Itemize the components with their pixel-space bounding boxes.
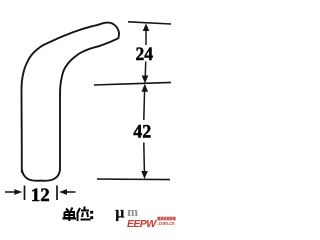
part outline (bent pin profile) bbox=[22, 23, 120, 181]
位 char bbox=[78, 208, 81, 221]
svg-text:μ: μ bbox=[115, 205, 124, 222]
unit label "单位" drawn strokes bbox=[63, 207, 91, 222]
dimension tick line middle bbox=[94, 82, 171, 85]
svg-text:m: m bbox=[127, 204, 138, 219]
svg-text:42: 42 bbox=[133, 122, 151, 143]
width dimension left extension bar bbox=[24, 186, 26, 201]
width dimension left leader line bbox=[5, 191, 16, 193]
dimension line 42 upper segment bbox=[143, 89, 146, 120]
width dimension right leader line bbox=[65, 191, 76, 193]
svg-text:24: 24 bbox=[136, 44, 154, 65]
dimension arrow down at bottom tick bbox=[141, 171, 148, 179]
dimension line 42 lower segment bbox=[143, 143, 146, 173]
svg-text:12: 12 bbox=[31, 185, 50, 206]
dimension arrow down at middle tick bbox=[142, 76, 149, 84]
dimension arrow up at top tick bbox=[143, 23, 150, 31]
dimension tick line top (for 24) bbox=[128, 22, 171, 24]
width dimension right extension bar bbox=[56, 186, 58, 201]
dimension line 24 upper segment bbox=[145, 28, 147, 45]
unit colon bbox=[90, 211, 93, 219]
dimension arrow up below middle tick bbox=[142, 84, 149, 92]
width dimension right arrow (pointing left) bbox=[59, 189, 67, 195]
单 char bbox=[66, 209, 69, 212]
width dimension left arrow (pointing right) bbox=[14, 189, 22, 195]
svg-text:.com.cn: .com.cn bbox=[157, 221, 174, 227]
dimension tick line bottom (for 42) bbox=[97, 178, 170, 181]
svg-text:EEPW: EEPW bbox=[127, 218, 157, 230]
dimension line 24 lower segment bbox=[144, 62, 147, 81]
watermark chinese tagline bbox=[157, 217, 175, 221]
